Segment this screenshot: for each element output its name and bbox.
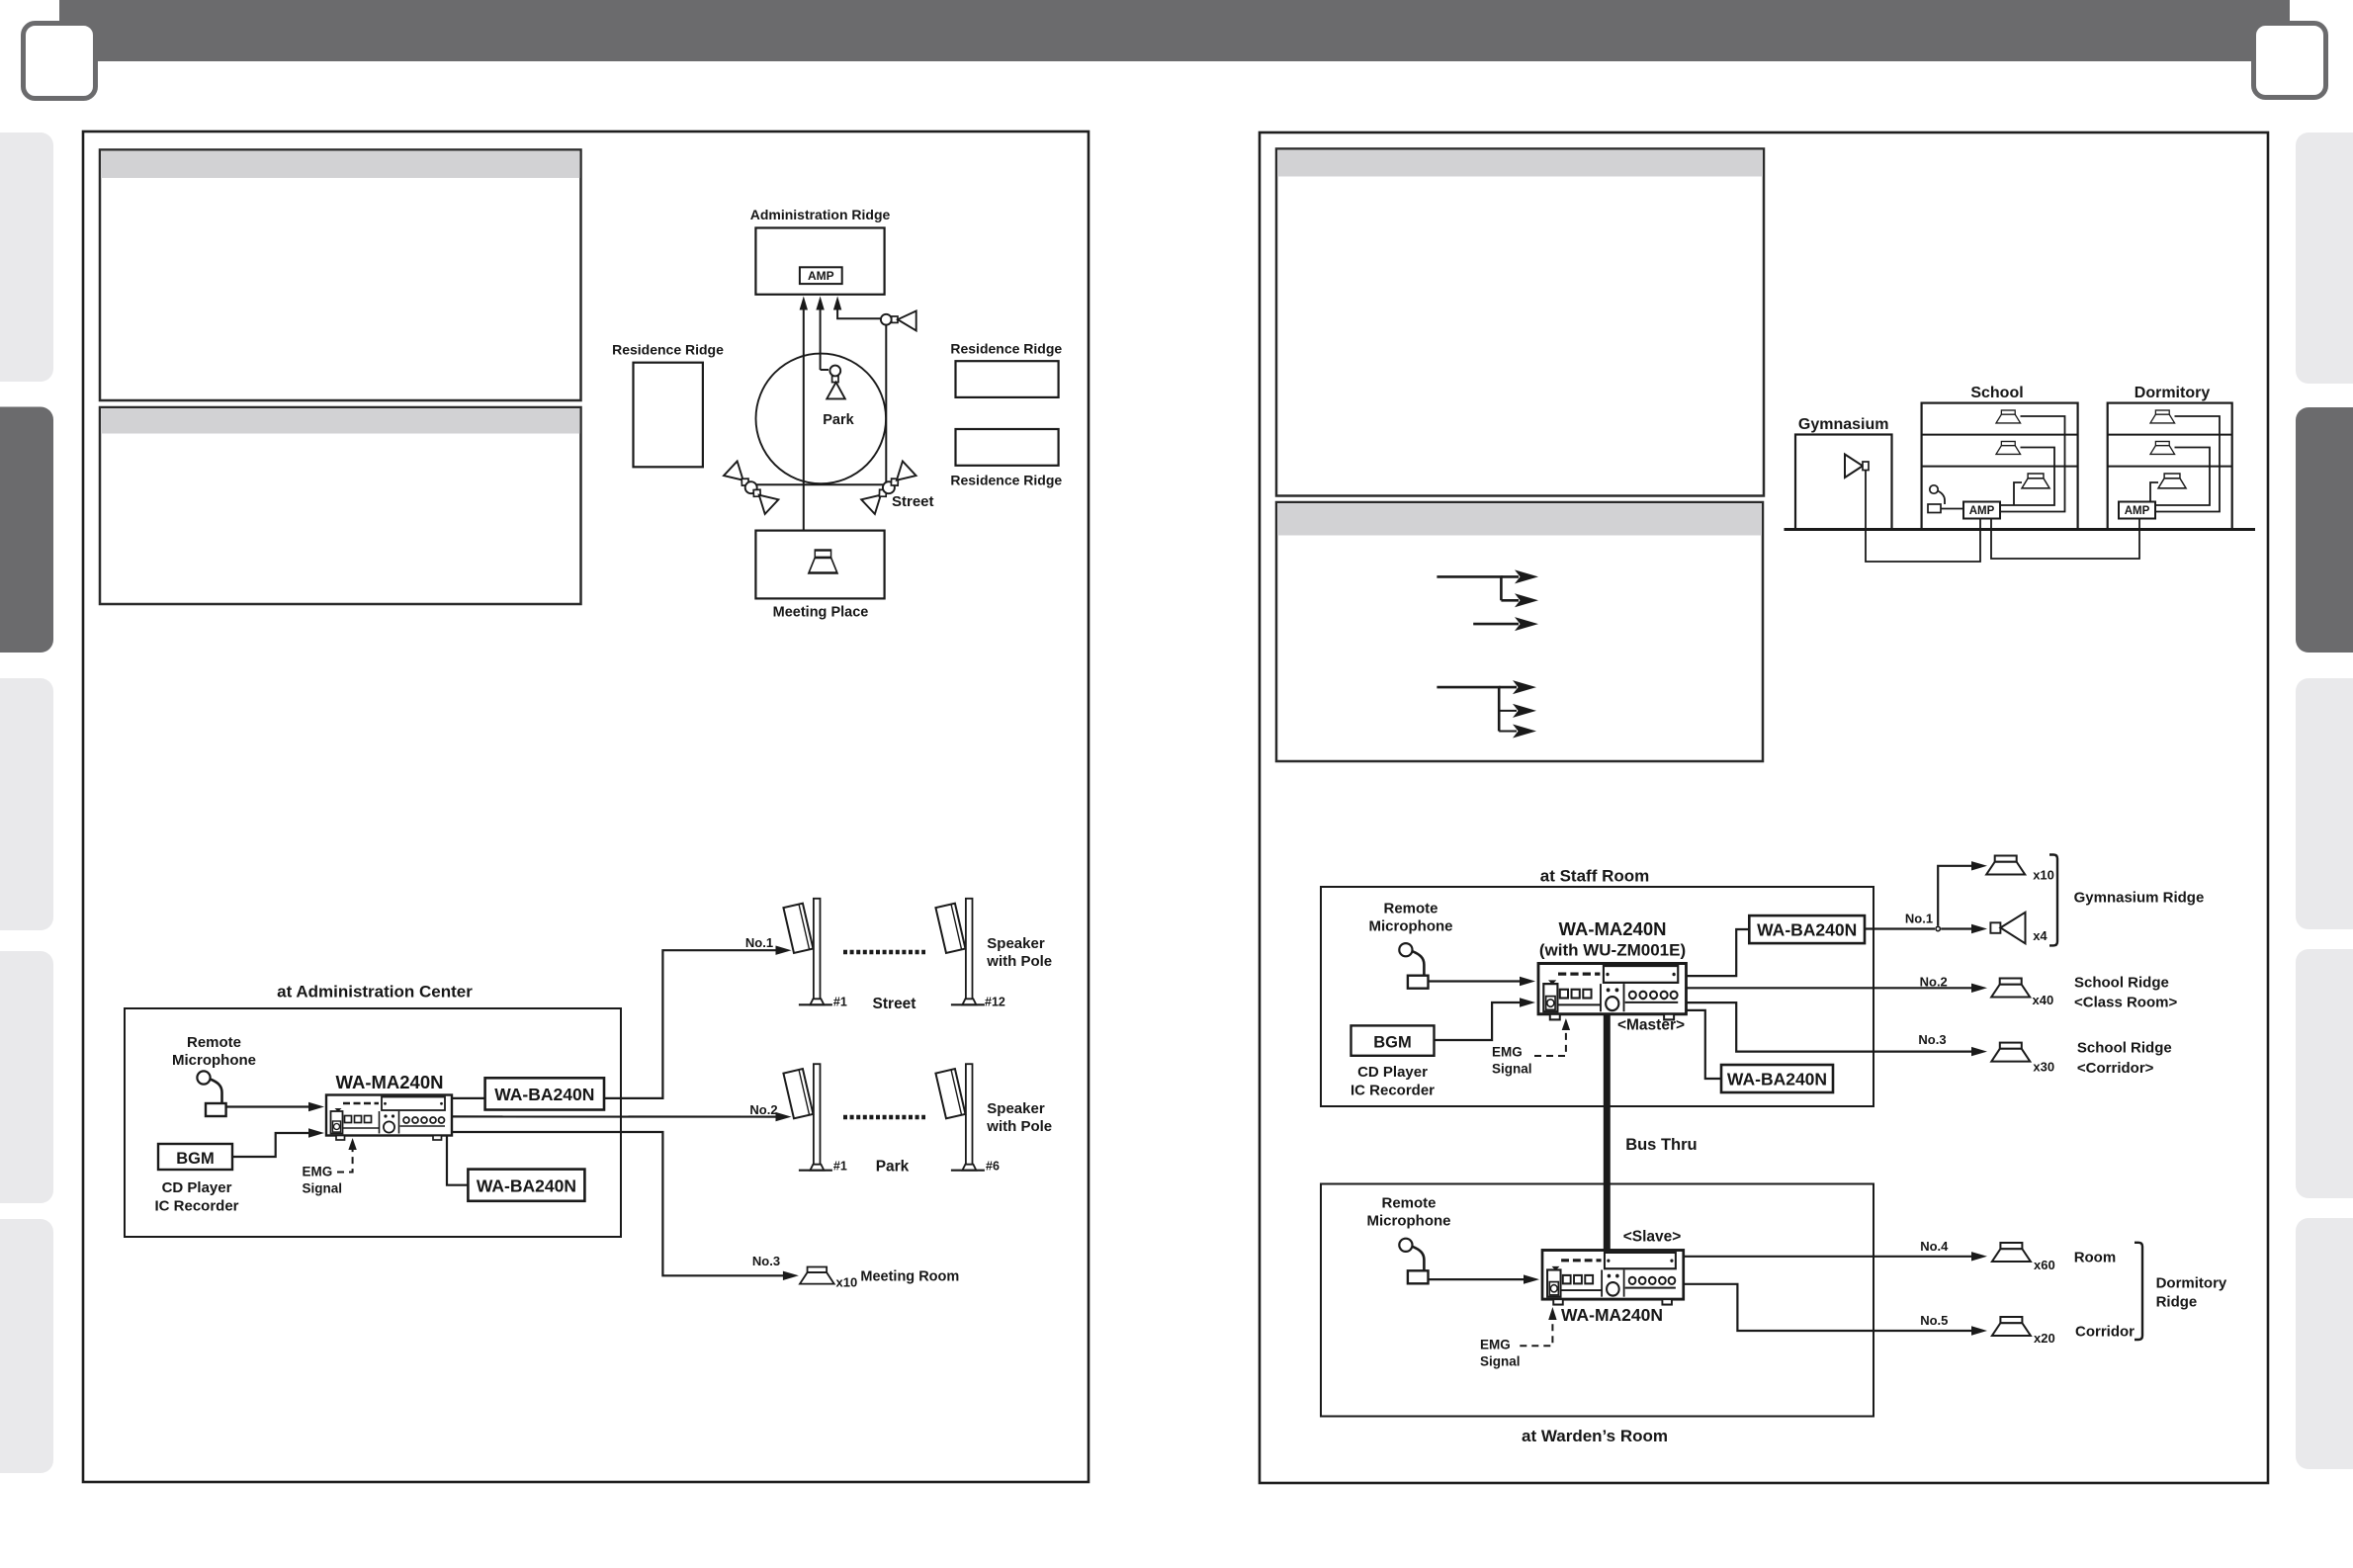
- gymnasium ridge bracket: [2049, 855, 2057, 946]
- svg-text:School: School: [1970, 385, 2023, 401]
- wire WA-BA240N 1 to No.1 street speakers: [604, 950, 781, 1098]
- svg-text:WA-MA240N: WA-MA240N: [336, 1072, 444, 1092]
- street horn cluster left: [724, 461, 778, 514]
- svg-text:Corridor: Corridor: [2075, 1324, 2135, 1341]
- dormitory floor1 ceiling speaker: [2150, 410, 2175, 423]
- svg-text:Street: Street: [892, 493, 934, 510]
- school floor3 speaker wire: [2014, 482, 2022, 505]
- svg-text:Dormitory: Dormitory: [2156, 1275, 2227, 1292]
- svg-text:at Staff Room: at Staff Room: [1540, 867, 1650, 886]
- meeting place ceiling speaker: [809, 551, 837, 573]
- svg-text:#1: #1: [833, 996, 847, 1009]
- wire slave amp No.4 output: [1684, 1256, 1974, 1258]
- BGM box: [158, 1144, 232, 1170]
- svg-text:#6: #6: [986, 1160, 1000, 1174]
- svg-text:Gymnasium Ridge: Gymnasium Ridge: [2074, 890, 2205, 907]
- wire BGM to master amplifier: [1435, 1002, 1522, 1040]
- Staff Room box: [1321, 887, 1874, 1106]
- svg-text:IC Recorder: IC Recorder: [1351, 1083, 1435, 1099]
- arrow group 2 line: [1437, 687, 1499, 731]
- arrow 1b: [1501, 599, 1519, 602]
- svg-text:AMP: AMP: [1969, 505, 1995, 517]
- arrow 2b: [1499, 710, 1517, 712]
- AMP box (map): [800, 267, 842, 284]
- svg-text:WA-BA240N: WA-BA240N: [477, 1176, 576, 1196]
- meeting room ceiling speaker: [800, 1267, 834, 1284]
- svg-text:<Master>: <Master>: [1617, 1017, 1685, 1034]
- svg-text:EMG: EMG: [1492, 1045, 1523, 1060]
- left page text box 2 gray title bar: [101, 408, 580, 434]
- amplifier WA-MA240N (admin): [326, 1095, 452, 1141]
- wire park speaker jog: [821, 369, 828, 371]
- svg-text:Microphone: Microphone: [1367, 1213, 1451, 1230]
- left page text box 2: [100, 407, 581, 604]
- wire master amp No.2 output: [1688, 987, 1975, 989]
- svg-text:BGM: BGM: [176, 1150, 215, 1168]
- wire slave amp No.5 output: [1684, 1284, 1974, 1331]
- svg-text:No.3: No.3: [752, 1254, 780, 1268]
- Dormitory floor lines: [2108, 434, 2232, 436]
- wire amp No.2 output to park speakers: [452, 1115, 781, 1117]
- right page text box 2 gray title bar: [1277, 503, 1762, 536]
- microphone icon (staff): [1399, 943, 1428, 989]
- wire master amp No.3 output: [1688, 1002, 1975, 1052]
- arrow 1c standalone: [1473, 623, 1519, 626]
- svg-text:Meeting Place: Meeting Place: [773, 605, 869, 621]
- svg-text:IC Recorder: IC Recorder: [154, 1198, 238, 1215]
- dormitory floor1 speaker wire: [2156, 416, 2220, 512]
- Administration Center box: [125, 1008, 621, 1237]
- wire mic to master amplifier: [1429, 980, 1522, 982]
- right tab 1: [2296, 132, 2353, 384]
- svg-text:AMP: AMP: [2125, 505, 2150, 517]
- School building: [1922, 403, 2078, 530]
- svg-text:Remote: Remote: [187, 1034, 241, 1051]
- svg-text:AMP: AMP: [808, 269, 834, 283]
- svg-text:Bus Thru: Bus Thru: [1625, 1136, 1697, 1154]
- svg-text:Microphone: Microphone: [172, 1052, 256, 1069]
- x10 ceiling speaker: [1986, 856, 2025, 875]
- svg-text:School Ridge: School Ridge: [2074, 975, 2169, 992]
- arrow 1a: [1501, 575, 1519, 578]
- Dormitory building: [2108, 403, 2232, 530]
- park pole speaker icon (circle+square+horn): [829, 366, 840, 377]
- arrow group 1 line: [1437, 576, 1501, 600]
- svg-text:WA-BA240N: WA-BA240N: [1757, 920, 1857, 940]
- WA-BA240N box 2 (admin): [468, 1170, 584, 1201]
- master amplifier WA-MA240N: [1538, 964, 1686, 1020]
- svg-text:Speaker: Speaker: [987, 935, 1045, 952]
- left tab 5: [0, 1219, 53, 1473]
- No.1 junction dot: [1936, 926, 1940, 930]
- svg-text:with Pole: with Pole: [986, 953, 1052, 970]
- svg-text:Residence Ridge: Residence Ridge: [950, 473, 1062, 488]
- svg-text:with Pole: with Pole: [986, 1118, 1052, 1135]
- school floor2 speaker wire: [2001, 448, 2054, 506]
- wire amp to WA-BA240N 2: [447, 1135, 468, 1185]
- top-right corner rounded square: [2254, 24, 2326, 98]
- Warden's Room box: [1321, 1184, 1874, 1417]
- svg-text:No.3: No.3: [1918, 1032, 1946, 1047]
- school floor1 ceiling speaker: [1996, 410, 2021, 423]
- top-left corner rounded square: [24, 24, 96, 99]
- street pole speaker #12: [935, 899, 984, 1005]
- right page border: [1260, 132, 2268, 1483]
- left tab 4: [0, 951, 53, 1203]
- Gymnasium building: [1795, 435, 1892, 530]
- wire amp No.3 output to meeting room: [452, 1132, 786, 1275]
- wire BGM to amplifier: [232, 1133, 310, 1157]
- wire mic to slave amplifier: [1429, 1278, 1525, 1280]
- arrow 2a: [1499, 686, 1517, 689]
- ground line: [1785, 528, 2256, 531]
- wire from street horn to AMP with up arrow: [837, 309, 880, 318]
- svg-text:No.1: No.1: [745, 935, 773, 950]
- x4 horn speaker: [1990, 922, 2000, 933]
- svg-text:x40: x40: [2033, 993, 2054, 1007]
- EMG dashed wire (admin): [337, 1147, 353, 1173]
- wire master amp to WA-BA240N bottom: [1688, 1010, 1722, 1079]
- left tab 1: [0, 132, 53, 382]
- left page text box 1: [100, 150, 581, 401]
- svg-text:Signal: Signal: [303, 1181, 343, 1196]
- Residence Ridge building box (right bottom): [956, 429, 1059, 466]
- WA-BA240N box 1 (admin): [485, 1078, 604, 1109]
- underground wire gym horn to school AMP: [1866, 471, 1980, 563]
- svg-text:WA-BA240N: WA-BA240N: [1727, 1070, 1827, 1089]
- WA-BA240N box top (staff): [1749, 915, 1865, 943]
- svg-text:No.2: No.2: [1920, 975, 1948, 990]
- x60 ceiling speaker: [1992, 1243, 2031, 1262]
- right page text box 2: [1276, 502, 1763, 761]
- dormitory ridge bracket: [2135, 1243, 2142, 1340]
- svg-text:x60: x60: [2034, 1258, 2055, 1272]
- school floor1 speaker wire: [2001, 416, 2065, 512]
- dormitory floor2 ceiling speaker: [2150, 442, 2175, 455]
- svg-text:No.1: No.1: [1905, 912, 1933, 926]
- svg-text:Microphone: Microphone: [1369, 918, 1453, 935]
- wire amp to WA-BA240N 1: [452, 1097, 485, 1099]
- svg-text:Gymnasium: Gymnasium: [1798, 416, 1889, 433]
- svg-text:at Administration Center: at Administration Center: [277, 983, 473, 1002]
- wire junction up to x10 speaker: [1938, 866, 1974, 926]
- svg-text:CD Player: CD Player: [1357, 1064, 1428, 1081]
- Bus Thru thick line: [1604, 1015, 1611, 1251]
- svg-text:EMG: EMG: [303, 1165, 333, 1179]
- school microphone: [1930, 485, 1938, 493]
- Residence Ridge building box (left): [634, 363, 703, 468]
- x20 ceiling speaker: [1992, 1317, 2031, 1336]
- microphone icon (admin): [197, 1071, 225, 1116]
- svg-text:(with WU-ZM001E): (with WU-ZM001E): [1539, 941, 1686, 960]
- svg-text:Remote: Remote: [1381, 1195, 1436, 1212]
- svg-text:Park: Park: [823, 412, 854, 428]
- Residence Ridge building box (right top): [956, 361, 1059, 397]
- right tab 5: [2296, 1218, 2353, 1469]
- svg-text:Street: Street: [873, 996, 916, 1012]
- right tab 4: [2296, 949, 2353, 1198]
- left tab 3: [0, 678, 53, 930]
- svg-text:No.5: No.5: [1920, 1313, 1948, 1328]
- x40 ceiling speaker: [1991, 979, 2030, 998]
- svg-text:Residence Ridge: Residence Ridge: [950, 341, 1062, 357]
- street speaker row: pole speaker #1: [783, 899, 831, 1005]
- gymnasium horn speaker: [1845, 455, 1863, 479]
- BGM box (staff): [1351, 1025, 1435, 1055]
- School floor lines: [1922, 434, 2078, 436]
- underground wire school AMP to dormitory AMP: [1991, 519, 2139, 560]
- slave amplifier WA-MA240N: [1542, 1251, 1684, 1305]
- school AMP box: [1963, 502, 2000, 519]
- EMG dashed wire (warden): [1520, 1318, 1552, 1346]
- svg-text:<Slave>: <Slave>: [1623, 1229, 1682, 1246]
- svg-text:x30: x30: [2033, 1060, 2054, 1075]
- EMG dashed wire (staff): [1534, 1028, 1566, 1056]
- svg-text:WA-MA240N: WA-MA240N: [1561, 1305, 1663, 1325]
- svg-text:School Ridge: School Ridge: [2077, 1040, 2172, 1057]
- svg-text:x20: x20: [2034, 1331, 2055, 1346]
- wire from top-right horn down to street: [885, 325, 887, 483]
- Meeting Place building box: [755, 531, 884, 599]
- park row dotted line: [843, 1115, 925, 1120]
- svg-text:Ridge: Ridge: [2156, 1294, 2198, 1311]
- park speaker row: pole speaker #1: [783, 1064, 831, 1171]
- street row dotted line: [843, 950, 925, 955]
- right tab 3: [2296, 678, 2353, 929]
- svg-text:BGM: BGM: [1373, 1034, 1412, 1052]
- svg-text:at Warden’s Room: at Warden’s Room: [1522, 1427, 1668, 1445]
- right page text box 1: [1276, 149, 1764, 496]
- svg-text:Speaker: Speaker: [987, 1100, 1045, 1117]
- dormitory AMP box: [2119, 502, 2155, 519]
- left page text box 1 gray title bar: [101, 151, 580, 179]
- street-side horn speaker icon top right (circle+square+horn): [881, 314, 892, 325]
- svg-text:Signal: Signal: [1492, 1062, 1532, 1077]
- svg-text:#1: #1: [833, 1160, 847, 1174]
- wire WA-BA240N top to No.1 junction: [1865, 927, 1935, 929]
- street horn cluster right: [861, 461, 915, 514]
- svg-text:Meeting Room: Meeting Room: [860, 1269, 959, 1285]
- school floor3 wall speaker: [2022, 474, 2049, 488]
- svg-text:<Corridor>: <Corridor>: [2077, 1060, 2154, 1077]
- svg-text:Remote: Remote: [1383, 901, 1438, 917]
- microphone icon (warden): [1399, 1239, 1428, 1284]
- Administration Ridge building box: [755, 228, 884, 295]
- svg-text:WA-BA240N: WA-BA240N: [494, 1085, 594, 1104]
- wire mic to amplifier (admin): [226, 1105, 310, 1107]
- svg-text:Residence Ridge: Residence Ridge: [612, 342, 724, 358]
- svg-text:#12: #12: [985, 996, 1005, 1009]
- wire junction to x4 horn: [1941, 927, 1974, 929]
- svg-text:EMG: EMG: [1480, 1338, 1511, 1352]
- school floor2 ceiling speaker: [1996, 442, 2021, 455]
- Park circle: [756, 354, 887, 484]
- svg-text:No.4: No.4: [1920, 1239, 1949, 1254]
- right page text box 1 gray title bar: [1277, 150, 1763, 177]
- park pole speaker #6: [935, 1064, 984, 1171]
- dormitory floor3 wall speaker: [2158, 474, 2186, 488]
- svg-text:No.2: No.2: [749, 1102, 777, 1117]
- street line: [756, 483, 889, 485]
- wire from meeting place to AMP with up arrow: [803, 309, 805, 559]
- svg-text:Signal: Signal: [1480, 1354, 1521, 1369]
- WA-BA240N box bottom (staff): [1721, 1065, 1833, 1092]
- left page border: [83, 131, 1089, 1482]
- dormitory floor3 speaker wire: [2150, 482, 2158, 505]
- top header bar: [59, 0, 2290, 61]
- svg-text:x10: x10: [2033, 868, 2054, 883]
- svg-text:Administration Ridge: Administration Ridge: [750, 207, 891, 222]
- dormitory floor2 speaker wire: [2156, 448, 2210, 506]
- svg-text:Room: Room: [2074, 1250, 2117, 1266]
- svg-text:<Class Room>: <Class Room>: [2074, 995, 2177, 1011]
- left tab 2 (dark): [0, 407, 53, 653]
- svg-text:WA-MA240N: WA-MA240N: [1559, 918, 1667, 939]
- wire from park speaker to AMP with up arrow: [820, 309, 822, 370]
- arrow 2c: [1499, 731, 1517, 733]
- svg-text:x4: x4: [2033, 928, 2048, 943]
- svg-text:Park: Park: [876, 1159, 910, 1176]
- svg-text:Dormitory: Dormitory: [2135, 385, 2211, 401]
- wire master amp to WA-BA240N top: [1688, 929, 1750, 976]
- x30 ceiling speaker: [1991, 1043, 2030, 1062]
- svg-text:CD Player: CD Player: [162, 1179, 232, 1196]
- right tab 2 (dark): [2296, 407, 2353, 653]
- svg-text:x10: x10: [836, 1275, 858, 1290]
